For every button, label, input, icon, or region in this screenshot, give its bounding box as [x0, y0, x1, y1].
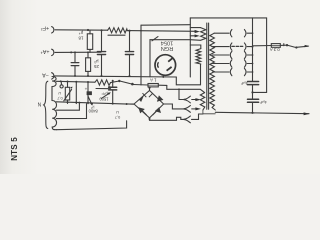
svg-text:8400: 8400 [88, 108, 98, 113]
svg-text:18: 18 [78, 35, 84, 40]
svg-text:μ³: μ³ [94, 59, 99, 64]
svg-text:NTS 5: NTS 5 [10, 137, 19, 161]
svg-text:1054: 1054 [161, 40, 173, 46]
svg-text:+A⁴: +A⁴ [40, 48, 50, 54]
svg-text:25: 25 [94, 64, 100, 69]
svg-text:U: U [58, 91, 61, 96]
svg-text:0,7: 0,7 [56, 96, 62, 101]
svg-text:N: N [38, 103, 42, 109]
svg-text:μ⁴: μ⁴ [79, 31, 84, 36]
svg-text:1500: 1500 [99, 97, 109, 102]
svg-text:+: + [108, 84, 111, 89]
svg-text:U: U [116, 110, 119, 115]
svg-text:4μF: 4μF [259, 100, 267, 105]
svg-text:1 A: 1 A [150, 78, 156, 83]
svg-text:0,7: 0,7 [114, 115, 120, 120]
svg-text:−A: −A [42, 72, 49, 78]
svg-text:0,3 A: 0,3 A [270, 47, 280, 52]
svg-text:+F²: +F² [41, 25, 49, 31]
svg-text:RGN: RGN [161, 45, 173, 51]
svg-text:+: + [85, 87, 88, 92]
svg-text:μ⁴F: μ⁴F [101, 91, 108, 95]
svg-text:4μF: 4μF [240, 81, 248, 86]
